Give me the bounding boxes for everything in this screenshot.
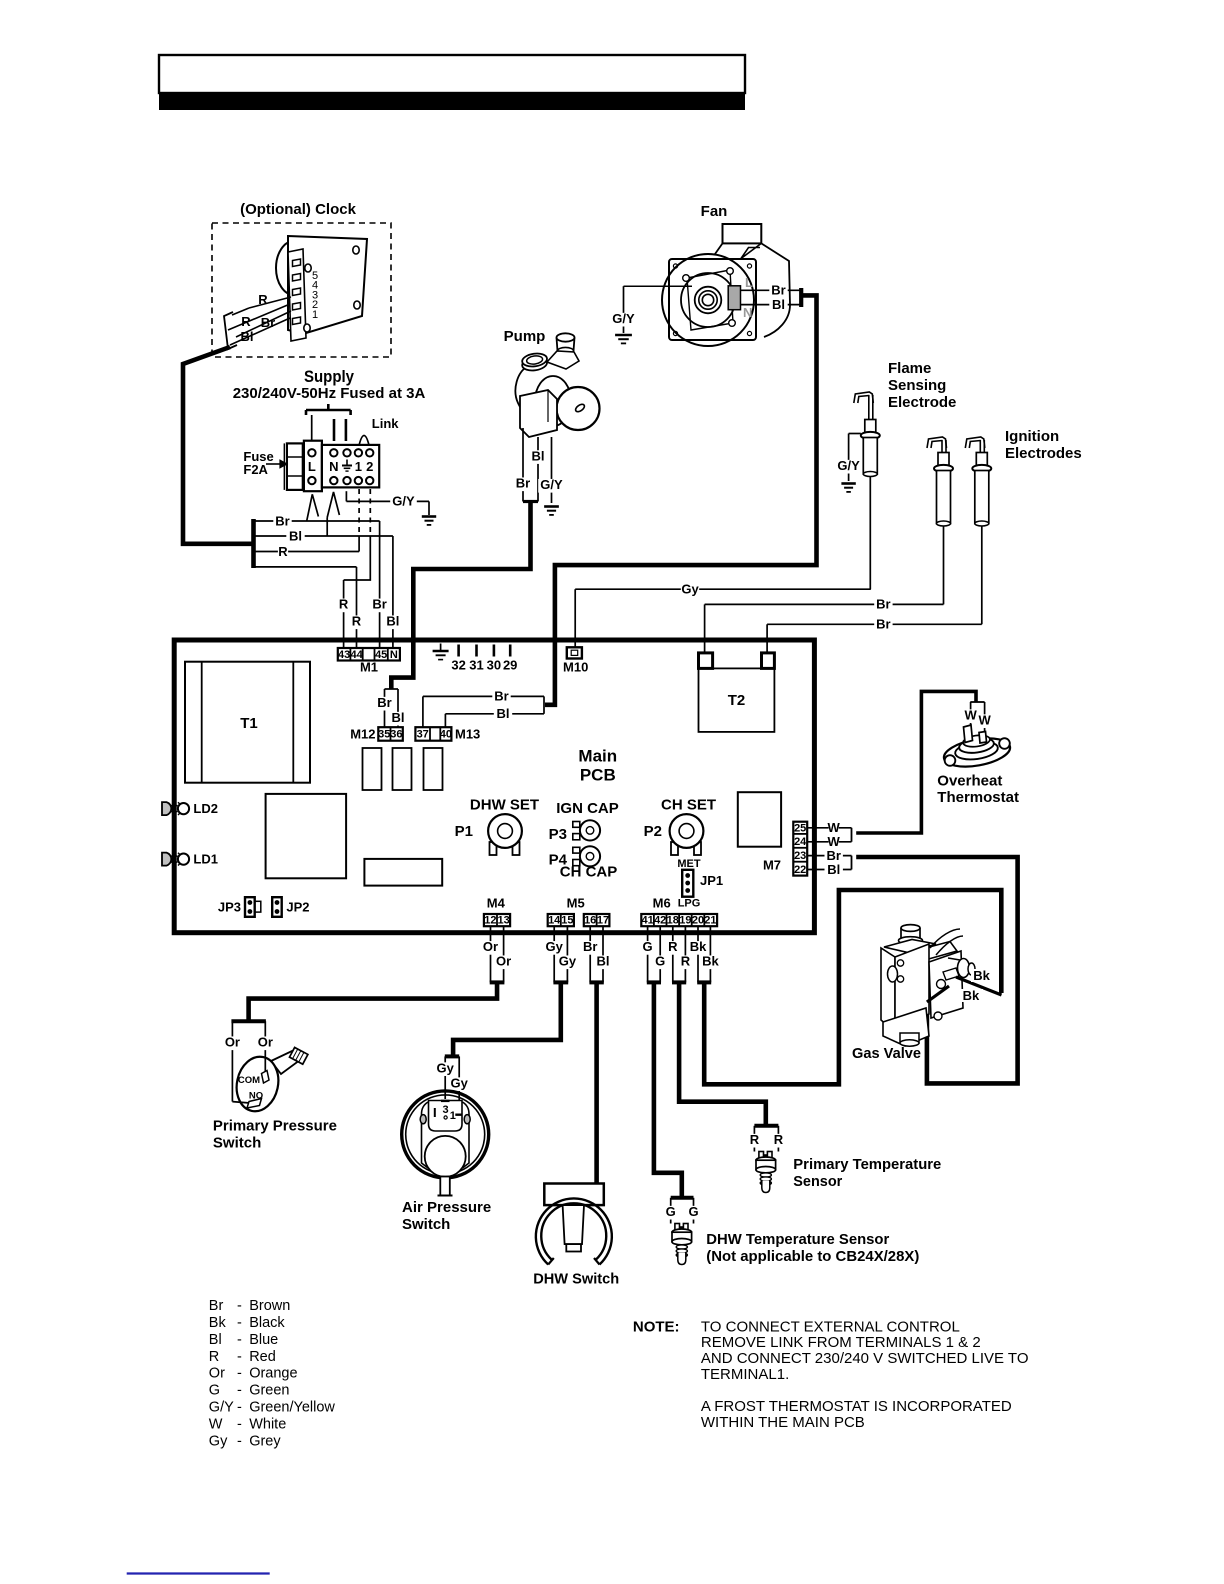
svg-text:19: 19 <box>679 915 691 927</box>
svg-text:White: White <box>249 1416 286 1432</box>
svg-text:Link: Link <box>372 416 399 431</box>
svg-text:COM: COM <box>238 1075 260 1086</box>
svg-text:-: - <box>237 1315 242 1331</box>
svg-text:Or: Or <box>483 939 498 954</box>
svg-text:G/Y: G/Y <box>540 477 563 492</box>
svg-text:WITHIN THE MAIN PCB: WITHIN THE MAIN PCB <box>701 1414 865 1431</box>
svg-text:REMOVE LINK FROM TERMINALS 1 &: REMOVE LINK FROM TERMINALS 1 & 2 <box>701 1334 981 1351</box>
svg-text:Green/Yellow: Green/Yellow <box>249 1400 335 1416</box>
svg-text:12: 12 <box>484 915 496 927</box>
svg-text:W: W <box>209 1416 223 1432</box>
svg-text:Bl: Bl <box>289 528 302 543</box>
svg-text:22: 22 <box>794 864 806 876</box>
svg-text:Br: Br <box>275 513 289 528</box>
svg-text:Gy: Gy <box>559 954 577 969</box>
svg-text:-: - <box>237 1383 242 1399</box>
svg-text:CH CAP: CH CAP <box>560 864 618 881</box>
svg-text:Gas Valve: Gas Valve <box>852 1045 921 1062</box>
svg-text:21: 21 <box>704 915 716 927</box>
svg-text:DHW Temperature Sensor: DHW Temperature Sensor <box>706 1231 889 1248</box>
svg-text:1: 1 <box>450 1110 456 1122</box>
svg-text:-: - <box>237 1332 242 1348</box>
svg-text:-: - <box>237 1349 242 1365</box>
svg-text:Flame: Flame <box>888 360 931 377</box>
svg-text:Br: Br <box>494 689 508 704</box>
svg-text:Br: Br <box>583 939 597 954</box>
svg-text:-: - <box>237 1416 242 1432</box>
svg-text:Or: Or <box>258 1035 273 1050</box>
svg-text:Or: Or <box>209 1366 225 1382</box>
svg-text:Supply: Supply <box>304 367 354 386</box>
svg-text:23: 23 <box>794 850 806 862</box>
svg-text:Gy: Gy <box>209 1433 228 1449</box>
svg-text:Sensing: Sensing <box>888 377 946 394</box>
svg-text:JP2: JP2 <box>286 900 309 915</box>
svg-text:G/Y: G/Y <box>612 311 635 326</box>
svg-text:-: - <box>237 1400 242 1416</box>
svg-text:Bl: Bl <box>497 706 510 721</box>
svg-text:Fan: Fan <box>701 203 728 220</box>
svg-text:Red: Red <box>249 1349 276 1365</box>
svg-text:16: 16 <box>584 915 596 927</box>
svg-text:Bl: Bl <box>386 614 399 629</box>
svg-text:G: G <box>643 939 653 954</box>
svg-text:-: - <box>237 1433 242 1449</box>
svg-text:R: R <box>209 1349 219 1365</box>
svg-text:G/Y: G/Y <box>837 458 860 473</box>
svg-text:M12: M12 <box>350 727 375 742</box>
svg-text:Gy: Gy <box>546 939 564 954</box>
svg-text:W: W <box>978 713 991 728</box>
svg-text:29: 29 <box>503 658 517 673</box>
svg-text:Orange: Orange <box>249 1366 297 1382</box>
svg-text:Ignition: Ignition <box>1005 428 1059 445</box>
svg-text:G: G <box>655 954 665 969</box>
svg-text:L: L <box>308 459 316 474</box>
svg-text:P1: P1 <box>455 823 473 840</box>
svg-text:LPG: LPG <box>678 898 701 910</box>
svg-text:G: G <box>666 1204 676 1219</box>
svg-text:P3: P3 <box>549 826 567 843</box>
svg-text:Or: Or <box>496 954 511 969</box>
svg-text:Black: Black <box>249 1315 285 1331</box>
svg-text:Green: Green <box>249 1383 289 1399</box>
svg-text:1: 1 <box>355 459 362 474</box>
svg-text:Bk: Bk <box>690 939 707 954</box>
svg-text:Electrodes: Electrodes <box>1005 445 1082 462</box>
svg-text:R: R <box>750 1132 760 1147</box>
svg-text:Pump: Pump <box>504 328 546 345</box>
svg-text:3: 3 <box>443 1104 449 1116</box>
svg-text:42: 42 <box>654 915 666 927</box>
svg-text:DHW Switch: DHW Switch <box>533 1271 619 1288</box>
svg-text:Br: Br <box>516 476 530 491</box>
svg-text:Bl: Bl <box>772 297 785 312</box>
svg-text:A FROST THERMOSTAT IS INCORPOR: A FROST THERMOSTAT IS INCORPORATED <box>701 1398 1012 1415</box>
svg-text:Sensor: Sensor <box>793 1173 842 1190</box>
svg-text:IGN CAP: IGN CAP <box>556 800 619 817</box>
svg-text:1: 1 <box>312 309 318 321</box>
svg-text:Switch: Switch <box>402 1216 450 1233</box>
svg-text:M4: M4 <box>487 895 506 910</box>
svg-text:14: 14 <box>548 915 561 927</box>
svg-text:Bl: Bl <box>392 710 405 725</box>
svg-text:Bl: Bl <box>597 954 610 969</box>
svg-text:25: 25 <box>794 822 806 834</box>
svg-text:Bl: Bl <box>532 448 545 463</box>
svg-text:Main: Main <box>578 747 617 766</box>
svg-text:F2A: F2A <box>243 462 268 477</box>
svg-text:Bk: Bk <box>702 954 719 969</box>
svg-text:T1: T1 <box>240 715 258 732</box>
svg-text:Overheat: Overheat <box>937 773 1002 790</box>
svg-text:(Optional) Clock: (Optional) Clock <box>240 201 356 218</box>
svg-text:Bl: Bl <box>209 1332 222 1348</box>
svg-text:W: W <box>964 708 977 723</box>
svg-text:37: 37 <box>417 729 429 741</box>
svg-text:Switch: Switch <box>213 1135 261 1152</box>
svg-text:15: 15 <box>561 915 573 927</box>
svg-text:P2: P2 <box>644 823 662 840</box>
svg-text:R: R <box>241 314 251 329</box>
svg-text:M5: M5 <box>567 895 585 910</box>
svg-text:W: W <box>828 820 841 835</box>
svg-text:-: - <box>237 1366 242 1382</box>
svg-text:G/Y: G/Y <box>392 494 415 509</box>
svg-text:T2: T2 <box>728 692 746 709</box>
svg-text:M10: M10 <box>563 660 588 675</box>
svg-text:Bl: Bl <box>241 329 254 344</box>
svg-text:Br: Br <box>261 315 275 330</box>
svg-text:R: R <box>258 292 268 307</box>
svg-text:(Not applicable to CB24X/28X): (Not applicable to CB24X/28X) <box>706 1248 919 1265</box>
svg-text:32: 32 <box>451 658 465 673</box>
svg-text:R: R <box>668 939 678 954</box>
svg-text:Bk: Bk <box>209 1315 227 1331</box>
svg-text:R: R <box>774 1132 784 1147</box>
svg-text:Primary Pressure: Primary Pressure <box>213 1118 337 1135</box>
svg-text:N: N <box>390 649 398 661</box>
svg-text:17: 17 <box>597 915 609 927</box>
svg-text:M13: M13 <box>455 727 480 742</box>
svg-text:13: 13 <box>497 915 509 927</box>
svg-text:JP3: JP3 <box>218 900 241 915</box>
svg-text:Br: Br <box>826 848 840 863</box>
svg-text:30: 30 <box>487 658 501 673</box>
svg-text:Grey: Grey <box>249 1433 281 1449</box>
svg-text:PCB: PCB <box>580 766 616 785</box>
svg-text:Blue: Blue <box>249 1332 278 1348</box>
svg-text:Br: Br <box>209 1298 224 1314</box>
svg-text:Br: Br <box>876 597 890 612</box>
svg-text:W: W <box>828 834 841 849</box>
svg-text:Br: Br <box>771 283 785 298</box>
svg-text:Gy: Gy <box>451 1076 469 1091</box>
svg-text:35: 35 <box>378 729 390 741</box>
svg-text:Electrode: Electrode <box>888 394 956 411</box>
svg-text:230/240V-50Hz Fused at 3A: 230/240V-50Hz Fused at 3A <box>233 385 426 402</box>
svg-text:Br: Br <box>372 597 386 612</box>
svg-text:43: 43 <box>338 649 350 661</box>
svg-text:24: 24 <box>794 836 807 848</box>
svg-text:Bk: Bk <box>963 988 980 1003</box>
svg-text:G/Y: G/Y <box>209 1400 234 1416</box>
svg-text:N: N <box>329 459 338 474</box>
svg-text:31: 31 <box>469 658 483 673</box>
svg-text:36: 36 <box>390 729 402 741</box>
svg-text:40: 40 <box>440 729 452 741</box>
svg-text:41: 41 <box>641 915 653 927</box>
svg-text:R: R <box>352 614 362 629</box>
svg-text:NOTE:: NOTE: <box>633 1318 680 1335</box>
svg-text:G: G <box>209 1383 220 1399</box>
svg-text:-: - <box>237 1298 242 1314</box>
svg-text:CH SET: CH SET <box>661 797 716 814</box>
svg-text:Gy: Gy <box>681 581 699 596</box>
svg-text:M6: M6 <box>653 895 671 910</box>
svg-text:Primary Temperature: Primary Temperature <box>793 1156 941 1173</box>
svg-text:Thermostat: Thermostat <box>937 789 1019 806</box>
svg-text:Bk: Bk <box>973 968 990 983</box>
svg-text:LD1: LD1 <box>193 852 218 867</box>
svg-text:Brown: Brown <box>249 1298 290 1314</box>
svg-text:Br: Br <box>377 695 391 710</box>
svg-text:20: 20 <box>692 915 704 927</box>
svg-text:Bl: Bl <box>827 862 840 877</box>
svg-text:18: 18 <box>667 915 679 927</box>
svg-text:JP1: JP1 <box>700 873 723 888</box>
svg-text:Br: Br <box>876 617 890 632</box>
svg-text:R: R <box>681 954 691 969</box>
svg-text:LD2: LD2 <box>193 801 218 816</box>
svg-text:DHW SET: DHW SET <box>470 797 539 814</box>
svg-text:TERMINAL1.: TERMINAL1. <box>701 1366 789 1383</box>
svg-text:R: R <box>278 544 288 559</box>
svg-text:N: N <box>743 305 752 320</box>
svg-text:TO CONNECT EXTERNAL CONTROL: TO CONNECT EXTERNAL CONTROL <box>701 1318 960 1335</box>
svg-text:AND CONNECT 230/240 V SWITCHED: AND CONNECT 230/240 V SWITCHED LIVE TO <box>701 1350 1029 1367</box>
svg-text:M7: M7 <box>763 858 781 873</box>
svg-text:MET: MET <box>677 858 701 870</box>
svg-text:L: L <box>745 275 753 290</box>
svg-text:Or: Or <box>225 1035 240 1050</box>
svg-text:Air Pressure: Air Pressure <box>402 1199 491 1216</box>
svg-text:2: 2 <box>366 459 373 474</box>
svg-text:M1: M1 <box>360 660 378 675</box>
svg-text:G: G <box>688 1204 698 1219</box>
svg-text:Gy: Gy <box>437 1061 455 1076</box>
svg-text:R: R <box>339 597 349 612</box>
